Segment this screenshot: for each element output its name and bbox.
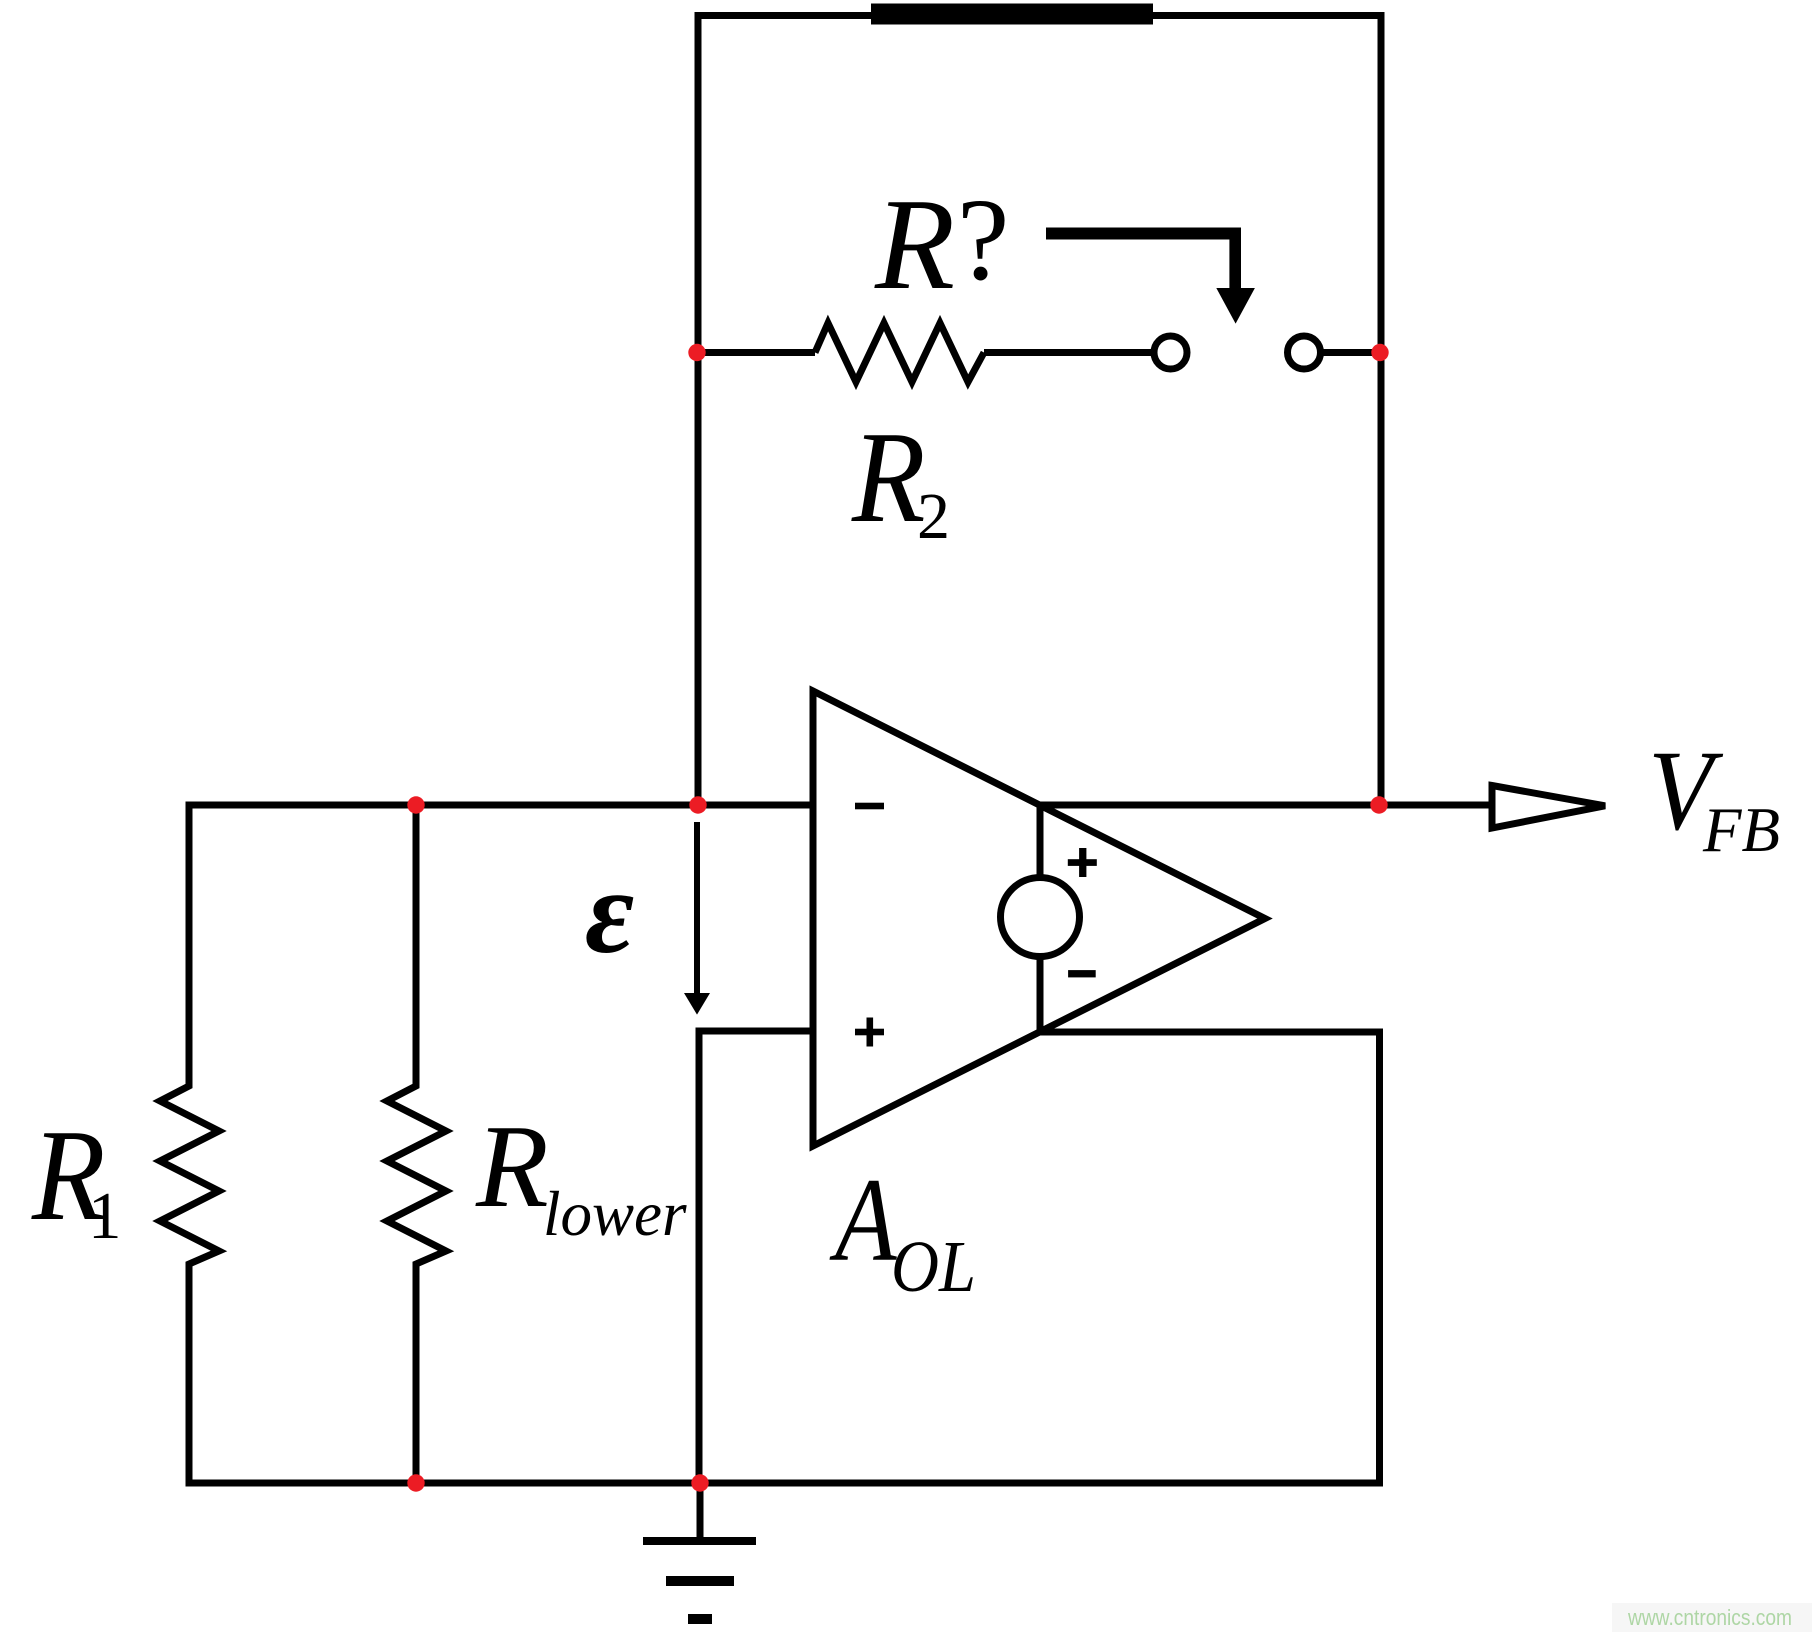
node dot ground [691, 1474, 708, 1491]
thick bus bar on top wire [871, 4, 1153, 25]
node dot R? left [688, 344, 705, 361]
resistor Rlower with leads [387, 805, 446, 1483]
ground symbol [697, 1483, 704, 1541]
plus sign non-inverting input [855, 1029, 884, 1036]
epsilon arrow [694, 822, 700, 997]
wire non-inverting side to bottom right loop [186, 1032, 1380, 1483]
wire non-inverting input (left) [699, 1031, 813, 1483]
resistor R1 with leads [160, 805, 219, 1483]
wire inverting input [186, 802, 814, 809]
internal lead output bottom [1037, 960, 1044, 1033]
svg-text:1: 1 [88, 1179, 122, 1253]
svg-text:www.cntronics.com: www.cntronics.com [1627, 1605, 1792, 1630]
svg-text:R: R [874, 172, 955, 317]
wire output to VFB [1040, 802, 1492, 809]
svg-text:A: A [829, 1153, 898, 1286]
svg-text:OL: OL [891, 1226, 976, 1307]
node dot Rlower top [407, 796, 424, 813]
wire top feedback loop [698, 16, 1381, 806]
minus sign source polarity [1068, 970, 1096, 977]
node dot inverting input [689, 796, 706, 813]
svg-text:R: R [475, 1100, 549, 1232]
VFB arrowhead [1492, 786, 1605, 829]
svg-text:2: 2 [917, 480, 950, 553]
wire resistor to switch [984, 349, 1154, 356]
svg-text:FB: FB [1702, 794, 1780, 865]
internal lead output top [1037, 805, 1044, 875]
minus sign inverting input [855, 803, 884, 810]
node dot output [1370, 796, 1387, 813]
watermark strip [1612, 1603, 1812, 1632]
svg-text:R: R [851, 405, 926, 550]
switch contact circle left [1154, 336, 1187, 369]
op-amp triangle AOL [813, 691, 1265, 1146]
wire switch to right rail [1321, 349, 1382, 356]
dependent source circle [1001, 878, 1080, 957]
svg-text:ε: ε [585, 845, 634, 978]
resistor R? zigzag [815, 323, 984, 382]
plus sign source polarity [1068, 859, 1097, 866]
wire R? branch left segment [698, 349, 815, 356]
annotation arrow for R? pointing at switch [1046, 228, 1235, 240]
node dot Rlower bottom [407, 1474, 424, 1491]
node dot R? right [1371, 344, 1388, 361]
svg-text:?: ? [957, 174, 1009, 305]
svg-text:lower: lower [543, 1179, 687, 1249]
switch contact circle right [1288, 336, 1321, 369]
